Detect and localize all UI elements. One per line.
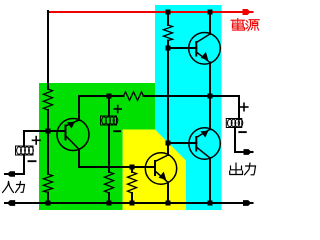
resistor R3 bbox=[124, 92, 144, 101]
C3 plus label bbox=[240, 103, 248, 110]
node: Q3 base junction bbox=[166, 46, 171, 51]
wire: input cap top lead bbox=[23, 131, 25, 146]
resistor R4 bbox=[105, 172, 114, 193]
node: output node junction bbox=[208, 94, 213, 99]
wire: Q2 collector up bbox=[167, 143, 169, 155]
wire: C3 bottom lead bbox=[235, 128, 253, 153]
transistor Q3 bbox=[189, 33, 221, 65]
wire: Q3 emitter to output node bbox=[209, 63, 211, 97]
wire: R5 to ground rail bbox=[131, 193, 133, 203]
wire: R4 to ground rail bbox=[108, 193, 110, 203]
input terminal arrow bbox=[7, 171, 15, 177]
wire: C2 top lead bbox=[108, 96, 110, 116]
wire: Q2 emitter to ground rail bbox=[167, 182, 169, 203]
transistor Q4 bbox=[189, 128, 220, 159]
node: R5 top junction bbox=[130, 165, 135, 170]
wire: input lower terminal bbox=[5, 173, 24, 175]
wire: Q3 base lead bbox=[168, 47, 196, 49]
wire: R6 to Q3 base node bbox=[167, 41, 169, 49]
wire: Q3 collector to rail bbox=[209, 12, 211, 34]
node: ground Q2 junction bbox=[166, 201, 171, 206]
wire: input cap bottom lead bbox=[23, 155, 25, 174]
wire: bias line down cyan bbox=[167, 48, 169, 143]
output terminal arrow bbox=[244, 149, 252, 155]
wire: Q1 collector up bbox=[78, 96, 80, 120]
label: power supply (dengen) bbox=[231, 18, 259, 30]
C3 minus label bbox=[239, 131, 246, 133]
transistor Q1 bbox=[57, 119, 89, 151]
wire: Q4 emitter to ground rail bbox=[209, 158, 211, 203]
transistor Q2 bbox=[145, 153, 176, 184]
ground rail left arrow bbox=[7, 200, 15, 206]
capacitor C1 bbox=[16, 146, 34, 155]
wire: R2 to ground rail bbox=[47, 193, 49, 204]
node: Q4 base junction bbox=[166, 141, 171, 146]
C1 plus label bbox=[33, 137, 41, 144]
wire: red power rail bbox=[48, 11, 253, 13]
C2 minus label bbox=[114, 130, 120, 132]
capacitor C3 bbox=[226, 119, 243, 128]
wire: ground rail bbox=[5, 202, 253, 204]
power arrow bbox=[243, 9, 251, 15]
wire: Q1 emitter down bbox=[78, 149, 80, 167]
node: base divider junction bbox=[46, 129, 51, 134]
node: rail R6 junction bbox=[166, 10, 171, 15]
green highlight region (first stage) bbox=[39, 83, 155, 210]
cyan highlight region (output stage) bbox=[155, 5, 222, 210]
label: output (shutsuryoku) bbox=[230, 163, 256, 175]
wire: collector node horizontal bbox=[79, 95, 124, 97]
wire: Q4 base lead bbox=[168, 142, 196, 144]
node: C2 top junction bbox=[107, 94, 112, 99]
wire: R1 to base node bbox=[47, 110, 49, 174]
resistor R6 bbox=[164, 25, 173, 41]
ground rail right arrow bbox=[243, 200, 251, 206]
capacitor C2 bbox=[101, 116, 118, 125]
wire: R5 top lead bbox=[131, 167, 133, 172]
node: ground R4 junction bbox=[107, 201, 112, 206]
C1 minus label bbox=[29, 160, 36, 162]
label: input (nyuuryoku) bbox=[3, 182, 25, 193]
wire: Q4 collector to output node bbox=[209, 96, 211, 129]
wire: C2 bottom to R4 bbox=[108, 125, 110, 172]
wire: emitter feedback horizontal bbox=[79, 166, 155, 168]
resistor R1 bbox=[44, 89, 53, 110]
C2 plus label bbox=[114, 106, 121, 113]
wire: R3 to output node and coupling bbox=[144, 96, 240, 119]
node: ground R5 junction bbox=[130, 201, 135, 206]
node: ground R2 junction bbox=[46, 201, 51, 206]
wire: input to base node bbox=[24, 130, 66, 132]
resistor R5 bbox=[128, 172, 137, 193]
wire: R6 top lead bbox=[167, 12, 169, 25]
node: rail Q3 junction bbox=[208, 10, 213, 15]
yellow highlight region (driver stage) bbox=[123, 130, 186, 211]
wire: left vertical (rail to R1) bbox=[47, 11, 49, 89]
node: ground Q4 junction bbox=[208, 201, 213, 206]
resistor R2 bbox=[44, 174, 53, 193]
